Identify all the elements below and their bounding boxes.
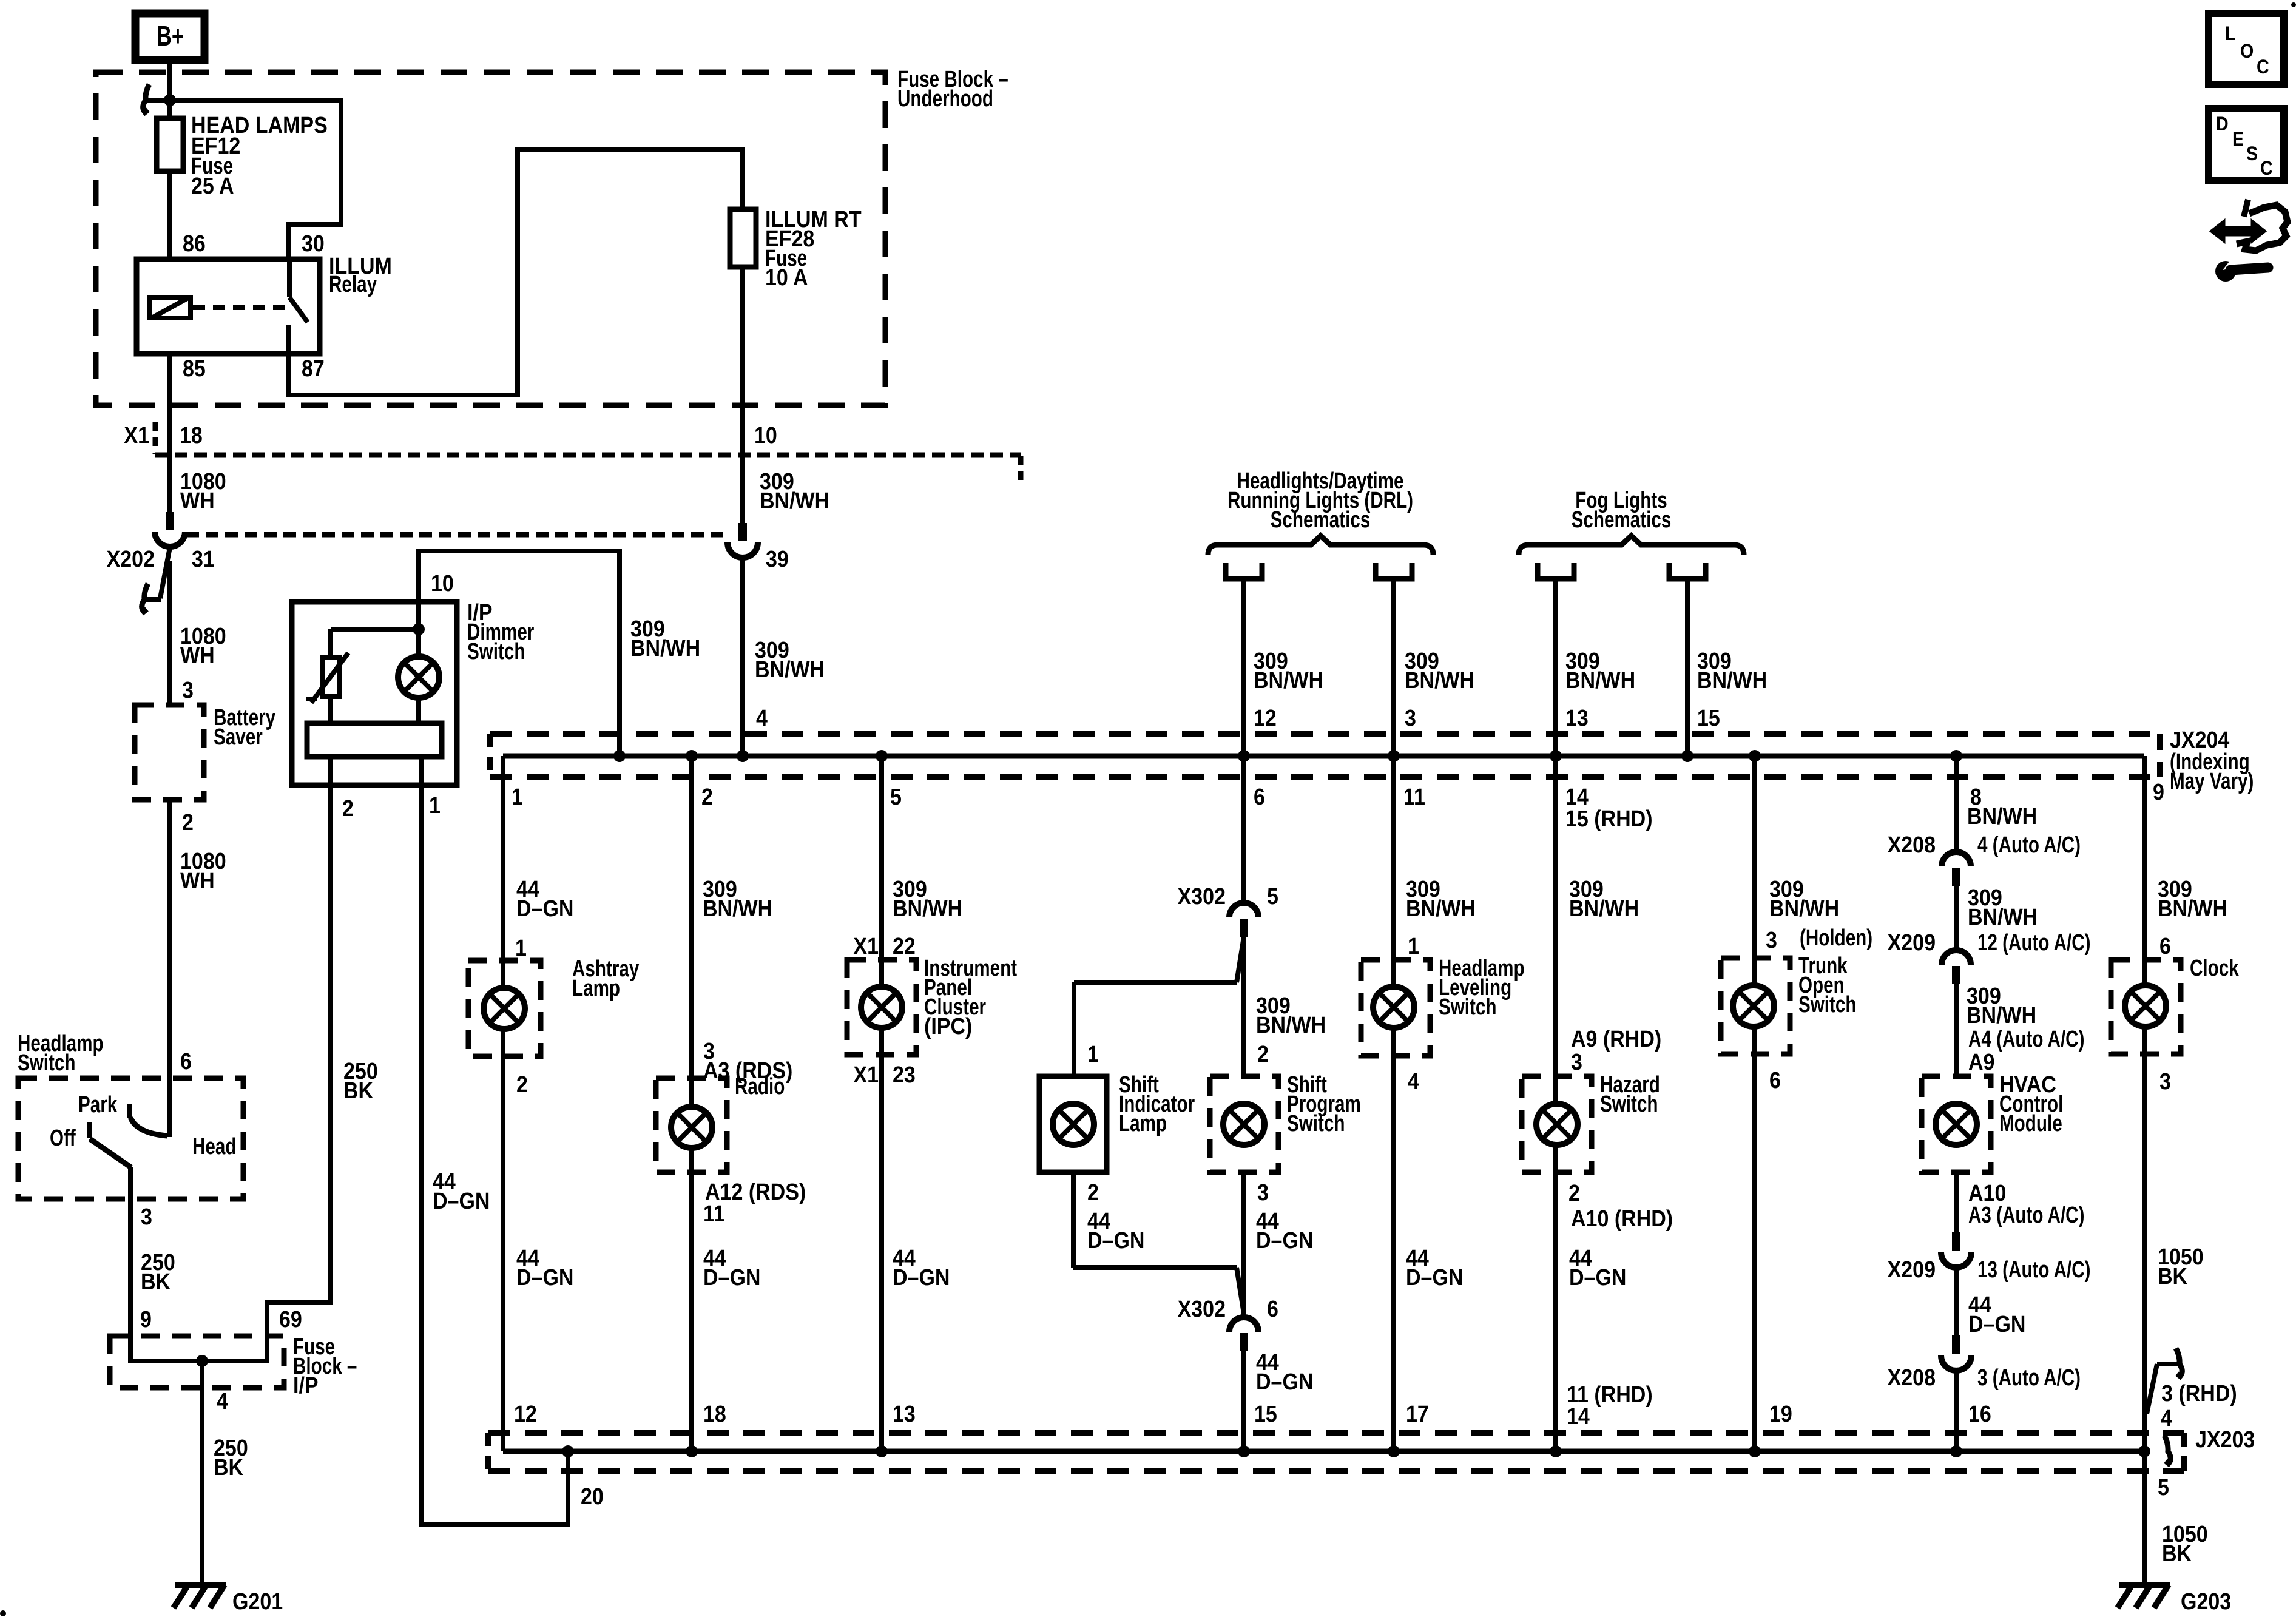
JX204 label [2170, 726, 2254, 794]
X202 terminal at pin 31: blade and cup [155, 512, 185, 547]
svg-text:I/P: I/P [293, 1372, 319, 1398]
connector X208 pin 3 (Auto A/C): blade and cup [1888, 1335, 2081, 1391]
svg-text:25 A: 25 A [191, 172, 234, 198]
svg-text:X202: X202 [107, 545, 155, 572]
shift program switch bulb [1223, 1104, 1264, 1145]
svg-text:2: 2 [342, 795, 354, 821]
wire label 250 BK [343, 1058, 378, 1103]
svg-text:9: 9 [2153, 778, 2164, 805]
svg-text:Schematics: Schematics [1271, 507, 1371, 533]
svg-text:C: C [2257, 57, 2269, 78]
wire label 309 BN/WH [1406, 876, 1476, 921]
svg-text:BN/WH: BN/WH [1967, 1002, 2036, 1028]
junction dot on JX204 bus (radio feed) [686, 750, 698, 762]
svg-text:S: S [2246, 144, 2258, 165]
shift indicator lamp bulb [1053, 1104, 1094, 1145]
clock bulb [2125, 985, 2166, 1027]
headlamp switch dashed box [18, 1078, 243, 1199]
wire: X202-31 down to battery saver [167, 561, 172, 705]
svg-text:18: 18 [180, 422, 203, 448]
svg-text:BK: BK [2158, 1263, 2187, 1289]
svg-text:BN/WH: BN/WH [1968, 903, 2038, 930]
svg-text:G201: G201 [232, 1588, 283, 1614]
svg-text:BN/WH: BN/WH [630, 635, 700, 661]
svg-text:19: 19 [1769, 1400, 1792, 1426]
svg-text:1: 1 [1408, 933, 1419, 959]
wire label 44 D-GN [433, 1168, 490, 1214]
svg-text:X209: X209 [1888, 929, 1936, 955]
svg-text:1: 1 [429, 792, 441, 818]
svg-text:May Vary): May Vary) [2170, 769, 2254, 794]
pin 14 / 15 (RHD) JX204 [1565, 783, 1653, 831]
fuse block underhood dashed outline [96, 72, 885, 405]
pin A9 (RHD) / 3 hazard switch [1571, 1025, 1661, 1075]
connector X208 pin 4 (Auto A/C) [1888, 831, 2081, 886]
wire label 309 BN/WH [1405, 647, 1474, 693]
wire: dimmer pin 1 down and over to JX203 pin 20 [421, 785, 568, 1524]
wire: B+ down through fuse EF12 to relay coil 86 [167, 60, 172, 259]
relay coil-contact link (dashed) [193, 305, 287, 310]
svg-text:4: 4 [217, 1388, 228, 1414]
battery positive terminal B+ [135, 13, 204, 60]
svg-text:BN/WH: BN/WH [760, 487, 829, 513]
wire: JX204 pin 11 down to headlamp leveling switch and JX203 pin 17 [1391, 756, 1396, 1451]
svg-text:X209: X209 [1888, 1256, 1936, 1282]
svg-text:D–GN: D–GN [1256, 1368, 1313, 1394]
pin 2 / A10 (RHD) hazard switch [1568, 1180, 1673, 1231]
shift program switch dashed box [1210, 1076, 1278, 1172]
svg-text:BK: BK [141, 1268, 171, 1294]
wire: B+ branch to relay contact 30 [170, 100, 341, 259]
battery saver label [214, 705, 275, 750]
pin A12 (RDS) / 11 radio [703, 1178, 806, 1226]
svg-text:14: 14 [1567, 1403, 1590, 1429]
junction dot in fuse block I/P [196, 1355, 208, 1367]
svg-text:10: 10 [754, 422, 777, 448]
wire label 309 BN/WH (dimmer feed) [630, 615, 700, 661]
X202 terminal at pin 39: blade and cup [728, 523, 758, 558]
battery saver dashed box [135, 705, 204, 800]
svg-text:BN/WH: BN/WH [1769, 895, 1839, 921]
junction dot on JX203 bus (pin 14) [1550, 1445, 1562, 1457]
svg-text:X1: X1 [124, 422, 149, 448]
svg-text:3: 3 [1571, 1048, 1582, 1075]
svg-text:85: 85 [183, 355, 206, 381]
pin 3 (Holden) trunk open switch [1766, 925, 1872, 953]
wire: battery saver down to headlamp switch pin 6 [167, 800, 172, 1088]
junction dot on JX204 bus (trunk feed) [1749, 750, 1761, 762]
svg-text:1: 1 [515, 934, 527, 960]
junction dot on JX204 bus (DRL/shift feed) [1238, 750, 1250, 762]
headlamp switch contacts Park/Off/Head [50, 1088, 236, 1167]
hazard switch label [1600, 1072, 1660, 1117]
splice pack JX204 band dashed borders [490, 734, 2160, 777]
fuse EF12 HEAD LAMPS 25A [157, 112, 328, 198]
svg-text:18: 18 [703, 1400, 726, 1426]
wire label 250 BK [214, 1434, 248, 1480]
wire: JX204 pin 2 down to radio lamp and JX203 pin 18 [689, 756, 694, 1451]
svg-text:A9: A9 [1968, 1048, 1994, 1075]
svg-text:6: 6 [1267, 1295, 1278, 1322]
svg-text:D–GN: D–GN [1406, 1264, 1463, 1290]
headlamp leveling switch dashed box [1361, 960, 1430, 1056]
svg-text:15 (RHD): 15 (RHD) [1565, 805, 1653, 831]
wire label 44 D-GN [1569, 1244, 1626, 1290]
wire: DRL feed 2 down to JX204 pin 3 [1391, 578, 1396, 756]
svg-text:3 (RHD): 3 (RHD) [2161, 1380, 2237, 1406]
headlamp leveling switch label [1439, 956, 1525, 1020]
svg-text:3: 3 [1766, 927, 1777, 953]
wire: JX204 pin 14 down to hazard switch and JX203 pin 14 [1553, 756, 1558, 1451]
fuse EF28 ILLUM RT 10A [730, 206, 862, 290]
IPC lamp dashed box [847, 960, 916, 1055]
svg-text:B+: B+ [157, 20, 184, 52]
splice pack JX203 band dashed borders [488, 1433, 2184, 1471]
svg-text:10 A: 10 A [765, 264, 808, 290]
junction dot on JX204 bus (HVAC feed) [1950, 750, 1962, 762]
wire: shift program switch pin 3 down to X302 pin 6 [1241, 1172, 1246, 1315]
svg-text:BK: BK [343, 1077, 373, 1103]
IPC label [924, 956, 1017, 1039]
hazard switch dashed box [1522, 1076, 1592, 1172]
fuse block I/P dashed box [110, 1336, 284, 1388]
svg-text:BN/WH: BN/WH [1565, 667, 1635, 693]
wire: HVAC down to X209 pin 13 [1954, 1172, 1959, 1232]
wire: fog feed 1 down to JX204 pin 13 [1553, 578, 1558, 756]
wire label 1050 BK [2162, 1521, 2208, 1566]
dimmer wiper bar [328, 697, 333, 723]
svg-text:BN/WH: BN/WH [1406, 895, 1476, 921]
svg-text:20: 20 [581, 1483, 604, 1509]
svg-text:A10 (RHD): A10 (RHD) [1571, 1205, 1673, 1231]
svg-text:D–GN: D–GN [1256, 1227, 1313, 1253]
wire label 44 D-GN [1968, 1291, 2025, 1337]
svg-text:D–GN: D–GN [1968, 1311, 2025, 1337]
svg-text:WH: WH [180, 487, 215, 513]
svg-text:9: 9 [140, 1306, 152, 1332]
wire label 44 D-GN [1406, 1244, 1463, 1290]
ashtray lamp dashed box [468, 960, 541, 1056]
svg-text:10: 10 [431, 570, 454, 596]
svg-text:D–GN: D–GN [516, 895, 573, 921]
splice pack JX203 bus [503, 1449, 2144, 1454]
svg-text:2: 2 [1257, 1041, 1269, 1067]
wire label 309 BN/WH [1565, 647, 1635, 693]
wire: relay 85 down to connector X202 pin 31 [167, 354, 172, 512]
wire label 309 BN/WH [2158, 876, 2227, 921]
svg-text:A3 (Auto A/C): A3 (Auto A/C) [1968, 1203, 2084, 1228]
wire: JX204 pin 9 corner down to clock and JX203 [2142, 756, 2147, 1451]
wire label 309 BN/WH [1697, 647, 1767, 693]
splice pack JX204 bus [503, 754, 2144, 759]
wire label 309 BN/WH [1967, 982, 2036, 1028]
svg-text:JX203: JX203 [2195, 1426, 2255, 1452]
shift indicator lamp box [1039, 1076, 1107, 1172]
svg-text:6: 6 [180, 1048, 192, 1074]
headlamp leveling switch bulb [1373, 987, 1414, 1028]
svg-text:Switch: Switch [467, 639, 525, 664]
junction dot on JX204 bus (DRL2/leveling feed) [1388, 750, 1400, 762]
wire: fuse block I/P pin 4 to ground G201 [200, 1361, 204, 1585]
svg-text:6: 6 [1254, 783, 1265, 809]
svg-text:5: 5 [890, 783, 902, 809]
wire: X202-39 down to junction JX204 pin 4 [740, 558, 745, 756]
svg-text:Clock: Clock [2190, 956, 2239, 981]
junction dot on JX203 bus (clock/ground) [2138, 1445, 2150, 1457]
junction dot on JX203 bus (pin 17) [1388, 1445, 1400, 1457]
svg-text:3: 3 [182, 677, 194, 703]
wire label 309 BN/WH [1569, 876, 1639, 921]
wire label 44 D-GN (shift indicator return) [1087, 1207, 1144, 1253]
svg-text:1: 1 [1087, 1041, 1099, 1067]
svg-text:3 (Auto A/C): 3 (Auto A/C) [1977, 1365, 2081, 1391]
svg-text:D–GN: D–GN [1087, 1227, 1144, 1253]
svg-text:13 (Auto A/C): 13 (Auto A/C) [1977, 1257, 2091, 1283]
svg-text:Radio: Radio [735, 1074, 785, 1099]
trunk open switch label [1798, 953, 1856, 1018]
junction dot on JX204 bus (IPC feed) [876, 750, 888, 762]
pin 3 (RHD) / 4 labels [2161, 1380, 2237, 1431]
svg-text:12 (Auto A/C): 12 (Auto A/C) [1977, 930, 2091, 956]
wire: relay 87 to fuse EF28 [288, 150, 743, 395]
wire label 44 D-GN [516, 876, 573, 921]
wire: fuse EF28 down to connector X202 pin 39 [740, 267, 745, 523]
svg-text:39: 39 [766, 545, 789, 572]
svg-text:30: 30 [302, 230, 325, 256]
svg-text:BN/WH: BN/WH [755, 656, 825, 682]
junction dot on JX203 bus (pin 18) [686, 1445, 698, 1457]
svg-text:Park: Park [78, 1092, 117, 1118]
svg-text:BN/WH: BN/WH [1967, 803, 2037, 829]
svg-text:2: 2 [701, 783, 713, 809]
wire label 44 D-GN [703, 1244, 760, 1290]
wire: X208 down to JX203 pin 16 [1954, 1371, 1959, 1451]
svg-text:Switch: Switch [1798, 992, 1856, 1018]
supply continuation hook at B+ node [143, 84, 169, 112]
wire label 44 D-GN [1256, 1349, 1313, 1394]
svg-text:WH: WH [180, 867, 215, 893]
svg-text:12: 12 [514, 1400, 537, 1426]
svg-text:87: 87 [302, 355, 325, 381]
svg-text:3: 3 [1257, 1179, 1269, 1205]
HVAC control module label [1999, 1071, 2063, 1136]
svg-text:4: 4 [756, 704, 768, 731]
junction dot on JX204 bus (fog2 feed) [1681, 750, 1693, 762]
svg-text:D: D [2216, 114, 2229, 135]
svg-text:E: E [2232, 129, 2244, 150]
svg-text:BN/WH: BN/WH [2158, 895, 2227, 921]
svg-text:Schematics: Schematics [1572, 507, 1672, 533]
svg-text:2: 2 [516, 1071, 528, 1097]
svg-text:BN/WH: BN/WH [1405, 667, 1474, 693]
reference brace: Fog Lights Schematics [1519, 488, 1744, 555]
wire: JX204 pin 5 down to IPC and JX203 pin 13 [879, 756, 884, 1451]
connector X302 pin 5 (dome and blade) [1178, 883, 1278, 937]
junction dot on JX203 bus (pin 13) [876, 1445, 888, 1457]
svg-text:X208: X208 [1888, 831, 1936, 857]
svg-text:BN/WH: BN/WH [1256, 1011, 1326, 1038]
wire label 250 BK [141, 1249, 175, 1294]
connector X1 (pass-through) [124, 422, 1021, 485]
svg-text:X1: X1 [853, 933, 879, 959]
svg-text:31: 31 [192, 545, 215, 572]
dimmer rheostat [323, 658, 339, 697]
svg-text:(Holden): (Holden) [1800, 925, 1872, 951]
junction dot on JX204 bus (fog/hazard feed) [1550, 750, 1562, 762]
connector X302 pin 6 (dome and blade) [1178, 1295, 1278, 1351]
junction dot on JX204 bus (X202-39 feed) [737, 750, 749, 762]
X202 lead break with hook at pin 31 [142, 547, 170, 612]
pin A4 (Auto A/C) / A9 HVAC [1968, 1027, 2084, 1075]
fuse block underhood label [897, 67, 1008, 112]
svg-text:O: O [2240, 41, 2254, 62]
radio lamp bulb [671, 1107, 712, 1148]
wire label 44 D-GN (shift program return) [1256, 1207, 1313, 1253]
junction dot inside dimmer [413, 623, 425, 635]
wire label 309 BN/WH [755, 636, 825, 682]
svg-text:69: 69 [279, 1306, 302, 1332]
svg-text:(IPC): (IPC) [924, 1013, 972, 1039]
fuse block I/P internal bus [130, 1336, 267, 1361]
trunk open switch bulb [1733, 985, 1774, 1027]
svg-text:D–GN: D–GN [893, 1264, 950, 1290]
wire: X302-5 to shift program switch pin 2 with branch to shift indicator lamp [1074, 937, 1244, 1076]
wire: JX204 pin 6 down to connector X302 pin 5 [1241, 756, 1246, 903]
svg-text:86: 86 [183, 230, 206, 256]
wire: dimmer pin 10 up and over to junction JX204 [419, 551, 620, 756]
pin A10 / A3 (Auto A/C) HVAC [1968, 1180, 2084, 1228]
reference brace: Headlights/Daytime Running Lights (DRL) Schematics [1208, 468, 1433, 555]
HVAC control module dashed box [1922, 1076, 1991, 1172]
svg-text:D–GN: D–GN [433, 1187, 490, 1214]
svg-text:A9 (RHD): A9 (RHD) [1571, 1025, 1661, 1052]
LOC reference box [2209, 13, 2284, 84]
svg-text:3: 3 [1405, 704, 1416, 731]
wire label 1080 WH (circuit to X202-31) [180, 468, 226, 513]
svg-text:Underhood: Underhood [897, 86, 993, 112]
clock dashed box [2111, 960, 2181, 1054]
svg-text:X302: X302 [1178, 883, 1226, 909]
svg-text:Off: Off [50, 1126, 76, 1151]
svg-text:BN/WH: BN/WH [703, 895, 772, 921]
fog connector stub 1 [1538, 563, 1574, 579]
fog connector stub 2 [1669, 563, 1706, 579]
DRL connector stub 2 [1376, 563, 1412, 579]
svg-text:BN/WH: BN/WH [893, 895, 962, 921]
svg-text:Switch: Switch [1439, 994, 1496, 1020]
svg-text:Switch: Switch [18, 1050, 75, 1076]
hazard switch bulb [1536, 1104, 1578, 1145]
svg-text:D–GN: D–GN [1569, 1264, 1626, 1290]
wire label 309 BN/WH [1254, 647, 1323, 693]
ground G203 [2118, 1585, 2231, 1614]
wire: X208 to X209 [1954, 886, 1959, 950]
wire label 309 BN/WH [893, 876, 962, 921]
connector X209 pin 13 (Auto A/C): blade and cup [1888, 1232, 2091, 1283]
svg-text:3: 3 [141, 1203, 152, 1229]
junction dot on JX203 bus (pin 19) [1749, 1445, 1761, 1457]
ashtray lamp bulb [484, 988, 525, 1029]
svg-text:22: 22 [893, 933, 916, 959]
junction dot on JX204 bus (dimmer feed) [613, 750, 626, 762]
svg-text:11: 11 [703, 1200, 725, 1226]
connector X1 pin 22 IPC [853, 933, 915, 959]
wire label 309 BN/WH [703, 876, 772, 921]
wire: DRL feed 1 down to JX204 pin 12 [1241, 578, 1246, 756]
svg-text:1: 1 [512, 783, 523, 809]
wire: JX204 pin 1 down to ashtray lamp and JX203 pin 12 [501, 756, 505, 1451]
radio lamp dashed box [656, 1078, 727, 1172]
page corner dots [0, 1610, 6, 1616]
svg-text:Lamp: Lamp [572, 976, 620, 1001]
wire: X302-6 down to JX203 pin 15 [1241, 1351, 1246, 1451]
headlamp switch label [18, 1031, 104, 1076]
pin 11 (RHD) / 14 JX203 [1567, 1381, 1653, 1429]
svg-text:BN/WH: BN/WH [1569, 895, 1639, 921]
svg-text:13: 13 [1565, 704, 1589, 731]
svg-text:5: 5 [1267, 883, 1278, 909]
wire: headlamp switch pin 3 down to fuse block I/P pin 9 [128, 1167, 133, 1336]
adjustment icon (arrow, hand, wrench) [2210, 200, 2288, 282]
wire: JX203 down to ground G203 [2142, 1451, 2147, 1585]
svg-text:BK: BK [2162, 1540, 2192, 1566]
IPC lamp bulb [861, 987, 902, 1028]
svg-text:L: L [2225, 24, 2235, 45]
svg-text:2: 2 [1568, 1180, 1580, 1206]
svg-text:Switch: Switch [1287, 1111, 1345, 1136]
dimmer internal feed wire [331, 627, 419, 632]
connector X1 pin 23 IPC [853, 1061, 915, 1087]
pin 8 BN/WH JX204 [1967, 783, 2037, 829]
svg-text:BK: BK [214, 1454, 243, 1480]
svg-text:11: 11 [1403, 783, 1425, 809]
svg-text:2: 2 [1087, 1179, 1099, 1205]
svg-text:4: 4 [2161, 1405, 2172, 1431]
wire: X209 down to X208 pin 3 [1954, 1268, 1959, 1335]
wire: JX204 pin 8 down to HVAC control module and JX203 pin 16 [1954, 756, 1959, 852]
ashtray lamp label [572, 956, 639, 1001]
svg-text:BN/WH: BN/WH [1697, 667, 1767, 693]
svg-text:15: 15 [1697, 704, 1720, 731]
JX203 hook at band end [2164, 1436, 2170, 1463]
junction dot at B+ node [164, 94, 176, 106]
svg-text:6: 6 [2159, 933, 2171, 959]
svg-text:17: 17 [1406, 1400, 1429, 1426]
wire label 309 BN/WH [1256, 992, 1326, 1038]
svg-text:BN/WH: BN/WH [1254, 667, 1323, 693]
svg-text:15: 15 [1254, 1400, 1277, 1426]
junction dot on JX203 bus (pin 15) [1238, 1445, 1250, 1457]
svg-text:X208: X208 [1888, 1364, 1936, 1390]
junction dot on JX203 bus (pin 16) [1950, 1445, 1962, 1457]
svg-text:4 (Auto A/C): 4 (Auto A/C) [1977, 832, 2081, 858]
svg-text:Switch: Switch [1600, 1092, 1658, 1117]
trunk open switch dashed box [1721, 958, 1790, 1054]
svg-text:D–GN: D–GN [703, 1264, 760, 1290]
wire label 309 BN/WH [1769, 876, 1839, 921]
svg-text:5: 5 [2158, 1474, 2169, 1500]
wire label 1080 WH [180, 623, 226, 668]
wire label 1080 WH [180, 848, 226, 893]
svg-text:16: 16 [1968, 1400, 1991, 1426]
wire: X209 down to HVAC control module [1954, 984, 1959, 1076]
svg-text:Module: Module [1999, 1111, 2062, 1136]
wire: shift indicator lamp return to X302 pin 6 [1073, 1172, 1244, 1314]
svg-text:X302: X302 [1178, 1295, 1226, 1322]
wire: JX204 down to trunk open switch and JX203 pin 19 [1752, 756, 1757, 1451]
3 (RHD) branch with hook [2147, 1348, 2182, 1414]
svg-text:D–GN: D–GN [516, 1264, 573, 1290]
